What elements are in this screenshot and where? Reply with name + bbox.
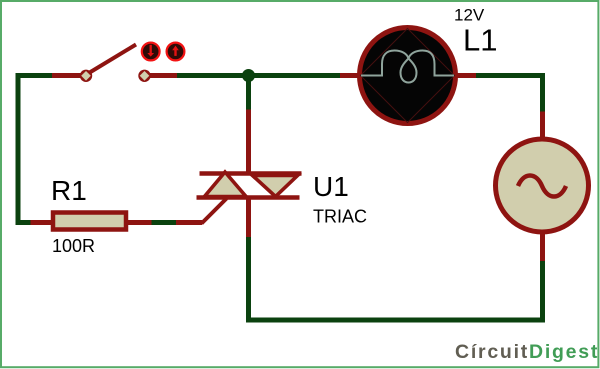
- wire: red triac bottom lead: [246, 199, 251, 237]
- svg-text:CírcuitDigest: CírcuitDigest: [455, 341, 599, 363]
- wire: red resistor left lead: [31, 220, 54, 225]
- svg-text:U1: U1: [313, 171, 349, 202]
- triac U1 bottom bar: [197, 195, 300, 200]
- wire: green from junction down: [246, 76, 251, 110]
- switch actuator button up: [167, 43, 185, 61]
- wire: red stub into lamp left: [340, 73, 360, 78]
- switch terminal 1: [80, 70, 92, 82]
- wire: green top right to corner: [476, 76, 543, 112]
- wire: green bottom loop: [249, 237, 543, 320]
- wire: red stub to switch terminal 1: [52, 73, 81, 78]
- switch actuator button down: [142, 43, 160, 61]
- wire: red stub into AC source top: [540, 112, 545, 140]
- lamp L1 filament: [361, 51, 454, 83]
- triac U1 left triangle: [205, 172, 247, 197]
- triac U1 top bar: [200, 171, 302, 176]
- wire: gate diagonal to triac: [202, 199, 227, 224]
- lamp L1 inner diamond: [361, 29, 455, 123]
- wire: left vertical + top-left stub (green): [18, 76, 52, 223]
- AC source V1 body: [496, 139, 589, 232]
- svg-text:L1: L1: [463, 23, 497, 58]
- wire: red stub from switch terminal 2: [149, 73, 177, 78]
- wire: red resistor right lead: [128, 220, 152, 225]
- AC source V1 sine symbol: [518, 176, 566, 197]
- svg-text:100R: 100R: [52, 236, 95, 256]
- wire: red stub lamp right: [455, 73, 476, 78]
- wire: red triac top lead: [246, 110, 251, 175]
- triac U1 right triangle: [253, 176, 298, 197]
- wire: green segment gate wire: [152, 220, 177, 225]
- node junction dot: [242, 69, 255, 82]
- svg-text:TRIAC: TRIAC: [313, 207, 367, 227]
- switch terminal 2: [138, 70, 150, 82]
- svg-text:R1: R1: [51, 175, 87, 206]
- switch SW1 lever: [88, 45, 136, 74]
- lamp L1 body: [360, 28, 456, 124]
- wire: red gate lead horizontal: [176, 220, 202, 225]
- wire: red stub AC source bottom: [540, 232, 545, 261]
- resistor R1: [53, 213, 126, 230]
- wire: top green from switch to lamp (through junction): [177, 73, 340, 78]
